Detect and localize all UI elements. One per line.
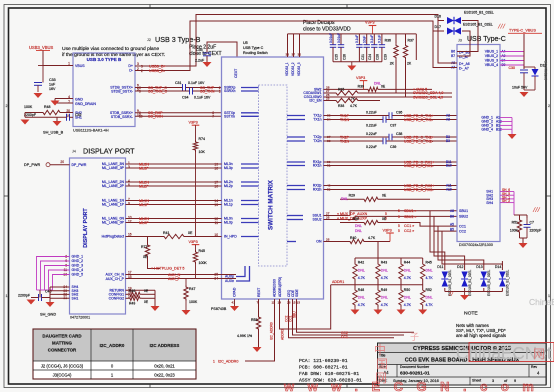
- svg-text:D+_A6: D+_A6: [459, 62, 470, 66]
- svg-text:USB1112G-BAK1-4H: USB1112G-BAK1-4H: [73, 129, 109, 133]
- resistor R37: [405, 34, 407, 44]
- svg-text:SSTXn: SSTXn: [224, 114, 235, 118]
- wire ON to resistor array: [377, 242, 379, 259]
- svg-text:7: 7: [212, 115, 214, 119]
- svg-text:16: 16: [214, 184, 218, 188]
- svg-text:0.22uF: 0.22uF: [366, 110, 377, 114]
- wire SSTX- with series cap C34: [135, 90, 190, 92]
- svg-text:39: 39: [327, 188, 331, 192]
- svg-text:╱╱: ╱╱: [448, 291, 454, 296]
- svg-text:DNL: DNL: [358, 296, 365, 300]
- ground below R51/C7: [522, 238, 524, 243]
- svg-text:13: 13: [214, 203, 218, 207]
- svg-text:CC1: CC1: [459, 224, 466, 228]
- wires ML lanes J4 to U5: [126, 163, 222, 165]
- svg-text:子: 子: [410, 332, 419, 342]
- watermark red CJK glyphs title block: [374, 342, 388, 385]
- svg-text:DNL: DNL: [404, 269, 411, 273]
- wire R45 to AUX_P: [195, 264, 197, 279]
- svg-text:R48: R48: [44, 105, 51, 109]
- wire VDD33 rail: [288, 33, 417, 35]
- svg-text:1: 1: [213, 360, 215, 364]
- svg-text:V3P3: V3P3: [356, 76, 365, 80]
- svg-text:R37: R37: [408, 39, 414, 43]
- wire ON row with resistor R40: [324, 241, 349, 243]
- wire resistor array mid rail (ADDR1): [331, 284, 423, 286]
- svg-text:SS_TXN: SS_TXN: [200, 90, 215, 94]
- svg-text:Document Number: Document Number: [400, 365, 430, 369]
- svg-text:1uF: 1uF: [49, 83, 56, 87]
- svg-text:C7: C7: [530, 221, 535, 225]
- resistor R51: [517, 218, 521, 234]
- svg-text:B0520LW-7-F: B0520LW-7-F: [544, 61, 548, 80]
- svg-text:R38: R38: [338, 104, 344, 108]
- svg-text:R74: R74: [199, 137, 206, 141]
- svg-text:USB 3 Type-B: USB 3 Type-B: [155, 35, 201, 44]
- wire CC2 row: [434, 230, 457, 232]
- resistor R41: [162, 234, 186, 238]
- resistor R49: [377, 281, 379, 288]
- wire HPD with resistor R41: [126, 236, 163, 238]
- capacitor C40: [39, 290, 41, 294]
- svg-text:0E: 0E: [382, 217, 387, 221]
- svg-text:RX2n: RX2n: [313, 188, 322, 192]
- svg-text:I2C_ADDR0: I2C_ADDR0: [100, 343, 125, 348]
- svg-text:USB_PD_C_RX2-: USB_PD_C_RX2-: [404, 188, 434, 192]
- svg-text:SBU: SBU: [293, 311, 297, 318]
- svg-text:ML2P: ML2P: [139, 184, 149, 188]
- svg-text:ADDR1(EPD): ADDR1(EPD): [278, 277, 282, 297]
- svg-text:ML1p: ML1p: [224, 203, 233, 207]
- svg-text:AUX_P: AUX_P: [168, 277, 181, 281]
- svg-text:4.7K: 4.7K: [350, 104, 358, 108]
- ground below R53: [258, 331, 260, 347]
- resistor R42: [354, 258, 356, 262]
- capacitor C39: [382, 138, 384, 144]
- svg-text:DNL: DNL: [374, 82, 381, 86]
- resistor R47: [185, 279, 187, 286]
- svg-text:MATTING: MATTING: [52, 341, 72, 346]
- svg-text:VBUS_2: VBUS_2: [485, 54, 498, 58]
- ground rail below decaps: [333, 61, 382, 63]
- capacitor C25: [332, 34, 334, 45]
- svg-text:4.7K: 4.7K: [404, 303, 412, 307]
- svg-text:╱╱╱: ╱╱╱: [497, 24, 506, 29]
- wires CC/SBU from U5 bottom: [289, 299, 395, 338]
- wire ADDR1 route: [280, 285, 331, 329]
- svg-text:16V: 16V: [49, 87, 56, 91]
- svg-text:TX2N: TX2N: [340, 139, 350, 143]
- ground below R52: [422, 307, 424, 310]
- wire SH to R51/C7: [514, 214, 527, 216]
- wire SSU1 row: [324, 211, 458, 216]
- svg-text:B10: B10: [446, 164, 452, 168]
- svg-text:B8: B8: [450, 215, 454, 219]
- svg-text:B5: B5: [450, 227, 454, 231]
- capacitor C36: [388, 112, 390, 118]
- svg-text:GND_2: GND_2: [72, 259, 84, 263]
- svg-text:5: 5: [398, 229, 400, 233]
- wire VBUS to J2: [43, 51, 73, 66]
- svg-text:V3P3: V3P3: [365, 20, 374, 25]
- svg-text:17: 17: [128, 271, 132, 275]
- wires J3 SH bundle: [500, 191, 514, 193]
- svg-text:ADDR1: ADDR1: [332, 280, 344, 284]
- svg-text:USB 3.0 TYPE B: USB 3.0 TYPE B: [87, 57, 122, 62]
- svg-text:IN_HPD: IN_HPD: [224, 235, 237, 239]
- svg-text:R51: R51: [512, 221, 518, 225]
- svg-text:R40: R40: [350, 236, 356, 240]
- svg-text:0.1uF: 0.1uF: [370, 35, 374, 43]
- capacitor C7: [524, 224, 531, 226]
- svg-text:24: 24: [214, 277, 218, 281]
- frame tick marks: [149, 5, 151, 9]
- svg-text:C34: C34: [182, 95, 189, 99]
- svg-text:10uF 50V: 10uF 50V: [512, 86, 528, 90]
- svg-text:DNL: DNL: [381, 296, 388, 300]
- svg-text:are all high speed signals: are all high speed signals: [456, 333, 507, 338]
- svg-text:D+: D+: [128, 64, 133, 68]
- svg-text:R45: R45: [199, 249, 206, 253]
- resistor R44: [400, 258, 402, 262]
- svg-text:0.01uF: 0.01uF: [337, 33, 341, 43]
- svg-text:TYPE-C_VBUS: TYPE-C_VBUS: [509, 28, 536, 33]
- resistor R52: [422, 281, 424, 288]
- svg-text:0E: 0E: [381, 85, 386, 89]
- svg-text:ML3p: ML3p: [224, 166, 233, 170]
- svg-text:USB_PD_C_TX2-: USB_PD_C_TX2-: [404, 139, 434, 143]
- svg-text:CC1 »: CC1 »: [404, 224, 414, 228]
- svg-text:10: 10: [139, 115, 143, 119]
- svg-text:V3P3: V3P3: [383, 229, 392, 233]
- svg-text:R41: R41: [163, 231, 170, 235]
- svg-text:SBU2 »: SBU2 »: [404, 215, 417, 219]
- svg-text:CC2: CC2: [459, 229, 466, 233]
- capacitor C34: [189, 88, 191, 95]
- svg-text:R45: R45: [426, 261, 432, 265]
- svg-text:C38: C38: [396, 132, 402, 136]
- svg-text:J2: J2: [147, 38, 151, 42]
- svg-text:DNL: DNL: [426, 296, 433, 300]
- ground below C33: [34, 93, 43, 98]
- svg-text:100K: 100K: [189, 300, 198, 304]
- svg-text:2: 2: [548, 104, 550, 108]
- U5 internal blue wires (AUX): [236, 266, 245, 277]
- wire TX2p with cap C38: [324, 136, 390, 138]
- svg-text:I2C_EN: I2C_EN: [309, 99, 322, 103]
- wire CC1 row: [380, 223, 457, 227]
- svg-text:A10: A10: [446, 188, 452, 192]
- svg-text:ML3P: ML3P: [139, 166, 149, 170]
- svg-text:A8: A8: [450, 209, 454, 213]
- svg-text:0472720001: 0472720001: [70, 316, 90, 320]
- svg-text:CC1: CC1: [341, 335, 348, 339]
- svg-text:TX1n: TX1n: [313, 118, 321, 122]
- svg-text:0.22uF: 0.22uF: [366, 145, 377, 149]
- svg-text:STDB_SSRX-: STDB_SSRX-: [111, 115, 134, 119]
- capacitor C24: [366, 34, 368, 45]
- svg-text:NOTE: NOTE: [464, 311, 478, 317]
- svg-text:4.7K: 4.7K: [368, 236, 376, 240]
- wire SSRX pair to U5: [135, 112, 222, 114]
- svg-text:4.99K 1%: 4.99K 1%: [237, 334, 252, 338]
- svg-text:SS_RXN: SS_RXN: [148, 115, 163, 119]
- svg-text:DNL: DNL: [426, 269, 433, 273]
- ESD diode D13: [483, 261, 485, 270]
- svg-text:DISPLAY PORT: DISPLAY PORT: [83, 147, 135, 156]
- svg-text:« HOTPLUG_DET 5: « HOTPLUG_DET 5: [151, 267, 184, 271]
- resistor R43: [377, 258, 379, 262]
- svg-text:SH_2: SH_2: [502, 199, 510, 203]
- wire R51/C7 bottom join: [519, 234, 521, 238]
- svg-text:VBUS_3: VBUS_3: [485, 59, 498, 63]
- title block: [378, 343, 547, 385]
- wire TX1n with cap C37: [324, 119, 384, 121]
- svg-text:TX2n: TX2n: [313, 139, 321, 143]
- svg-text:C40: C40: [45, 290, 52, 294]
- wire RETURN: [126, 289, 156, 291]
- svg-text:5: 5: [385, 212, 387, 216]
- svg-text:J2 (CCG4), J6 (CCG3): J2 (CCG4), J6 (CCG3): [41, 364, 84, 369]
- svg-text:GND_1: GND_1: [72, 255, 84, 259]
- svg-text:R36: R36: [385, 39, 391, 43]
- svg-text:SH_GND: SH_GND: [40, 312, 56, 317]
- ESD diode D11: [444, 261, 446, 270]
- svg-text:18: 18: [214, 166, 218, 170]
- ESD diode D12: [464, 261, 466, 270]
- svg-text:R35: R35: [338, 88, 344, 92]
- wires rail to U5 VDD pins: [287, 34, 289, 57]
- svg-text:PCB: 600-60271-01: PCB: 600-60271-01: [299, 365, 348, 371]
- svg-text:PS8740B: PS8740B: [211, 307, 227, 311]
- svg-text:DP_PWR: DP_PWR: [24, 163, 40, 167]
- svg-text:R50: R50: [404, 288, 410, 292]
- svg-text:C21: C21: [361, 54, 365, 60]
- svg-text:I2C ADDRESS: I2C ADDRESS: [150, 343, 180, 348]
- svg-text:C29: C29: [383, 54, 387, 60]
- svg-text:ChinaECNet: ChinaECNet: [529, 297, 554, 307]
- svg-text:100K: 100K: [510, 229, 519, 233]
- resistor R49 CONFIG2: [126, 297, 129, 299]
- svg-text:ML2p: ML2p: [224, 184, 233, 188]
- svg-text:2.2uF: 2.2uF: [195, 59, 205, 63]
- capacitor C31: [182, 84, 184, 91]
- svg-text:SSU2: SSU2: [312, 218, 321, 222]
- svg-text:R44: R44: [404, 261, 410, 265]
- svg-text:DNL: DNL: [381, 269, 388, 273]
- svg-text:630-60261-01: 630-60261-01: [400, 371, 430, 377]
- svg-text:34: 34: [327, 118, 331, 122]
- svg-text:4.7K: 4.7K: [426, 303, 434, 307]
- svg-text:VDD33_2: VDD33_2: [291, 62, 295, 76]
- svg-text:100K: 100K: [24, 105, 33, 109]
- svg-text:D14: D14: [495, 265, 501, 269]
- resistor R50: [400, 281, 402, 288]
- svg-text:2K: 2K: [407, 62, 412, 66]
- connector J2 body: [73, 53, 135, 127]
- svg-text:GND_DRAIN: GND_DRAIN: [75, 102, 96, 106]
- svg-text:R46: R46: [129, 289, 135, 293]
- svg-text:5: 5: [398, 209, 400, 213]
- svg-text:VBUS: VBUS: [75, 64, 85, 68]
- svg-text:2: 2: [6, 104, 8, 108]
- svg-text:GND: GND: [75, 97, 83, 101]
- svg-text:0x20, 0x21: 0x20, 0x21: [154, 364, 175, 369]
- svg-text:Rev: Rev: [531, 365, 537, 369]
- wire HOTPLUG_DET stub: [148, 258, 161, 269]
- svg-text:C25: C25: [334, 54, 338, 60]
- resistor R74: [193, 140, 197, 152]
- svg-text:GND_5: GND_5: [72, 273, 84, 277]
- ground below R49: [377, 307, 379, 310]
- svg-text:D13: D13: [476, 265, 482, 269]
- svg-text:2200pF: 2200pF: [24, 113, 37, 117]
- svg-text:GND_4: GND_4: [481, 128, 493, 132]
- svg-text:VBUS_4: VBUS_4: [485, 63, 498, 67]
- wires J3 GND to ground: [500, 117, 512, 119]
- svg-text:2200pF: 2200pF: [18, 294, 31, 298]
- svg-text:C24: C24: [368, 54, 372, 60]
- svg-text:38: 38: [327, 139, 331, 143]
- svg-text:USB3_D+: USB3_D+: [149, 64, 167, 68]
- resistor R29 (SBU aux link): [340, 198, 362, 200]
- resistor R45: [193, 250, 197, 264]
- svg-text:26: 26: [326, 238, 330, 242]
- U5 internal blue wires (left): [241, 87, 259, 89]
- svg-text:100K: 100K: [199, 261, 208, 265]
- svg-text:V3P3: V3P3: [189, 121, 198, 125]
- svg-text:VDD33_3: VDD33_3: [297, 62, 301, 76]
- svg-text:中: 中: [374, 342, 386, 357]
- svg-text:10uF: 10uF: [363, 36, 367, 43]
- svg-text:SBU1: SBU1: [459, 209, 468, 213]
- svg-text:C26: C26: [342, 54, 346, 60]
- resistor R45: [422, 258, 424, 262]
- ground below R48: [354, 307, 356, 310]
- svg-text:ML0p: ML0p: [224, 221, 233, 225]
- svg-text:R29: R29: [349, 194, 355, 198]
- ground SH_GND: [46, 302, 55, 307]
- svg-text:0.1uF 16V: 0.1uF 16V: [194, 95, 211, 99]
- svg-text:0.01uF: 0.01uF: [329, 33, 333, 43]
- svg-text:DP_PWR: DP_PWR: [72, 163, 87, 167]
- svg-text:DNL: DNL: [355, 229, 362, 233]
- svg-text:USB Type C: USB Type C: [243, 46, 264, 50]
- svg-text:D17: D17: [434, 25, 441, 29]
- ESD diode D14: [501, 261, 503, 270]
- svg-text:D16: D16: [434, 15, 441, 19]
- svg-text:C33: C33: [49, 78, 56, 82]
- svg-text:J4: J4: [72, 150, 76, 154]
- wires SBU/CC nets to ESD diodes: [430, 211, 445, 261]
- wire SSTX+ with series cap C31: [135, 87, 183, 89]
- wire R74 to IN_HPD net: [195, 152, 197, 237]
- ground at J2 GND: [51, 101, 60, 106]
- svg-text:SW0/I2C_SCL 4,9: SW0/I2C_SCL 4,9: [413, 96, 443, 100]
- svg-text:USB_PD_C_RX1-: USB_PD_C_RX1-: [404, 164, 434, 168]
- svg-text:ON: ON: [316, 240, 322, 244]
- svg-text:B6: B6: [451, 50, 455, 54]
- svg-text:10: 10: [214, 233, 218, 237]
- wire RX2 pair: [324, 185, 458, 187]
- svg-text:ML0P: ML0P: [139, 221, 149, 225]
- svg-text:4.7K: 4.7K: [381, 303, 389, 307]
- svg-text:SH1: SH1: [72, 296, 79, 300]
- svg-text:5: 5: [398, 224, 400, 228]
- wires J4 SH bundle: [50, 286, 70, 288]
- svg-text:3: 3: [141, 64, 143, 68]
- svg-text:DNL: DNL: [404, 296, 411, 300]
- U5 internal blue wires (right): [287, 115, 305, 117]
- svg-text:R77: R77: [141, 245, 148, 249]
- wire CSDA row with resistor R35: [324, 92, 335, 94]
- svg-text:4.7K: 4.7K: [358, 276, 366, 280]
- svg-text:SH_USB_B: SH_USB_B: [43, 130, 64, 135]
- wire USB3_D+ to ESD diode D16: [135, 15, 444, 67]
- capacitor C38: [388, 134, 390, 140]
- ground below RETURN/CONFIG: [151, 306, 160, 311]
- capacitor C28: [373, 34, 375, 45]
- svg-text:TX1N: TX1N: [340, 118, 350, 122]
- svg-text:USB3_D-: USB3_D-: [149, 69, 166, 73]
- svg-text:AUXn: AUXn: [225, 279, 234, 283]
- svg-text:1: 1: [68, 62, 70, 66]
- svg-text:PCA: 121-60239-01: PCA: 121-60239-01: [299, 358, 348, 364]
- svg-text:ADDRESS0: ADDRESS0: [273, 279, 277, 297]
- resistor R53 (REXT): [258, 299, 260, 315]
- svg-text:B7: B7: [451, 54, 455, 58]
- zener diode D15: [524, 66, 535, 68]
- svg-text:DNL: DNL: [358, 269, 365, 273]
- svg-text:R49: R49: [381, 288, 387, 292]
- svg-text:R42: R42: [358, 261, 364, 265]
- svg-text:D11: D11: [437, 265, 443, 269]
- resistor R77: [147, 237, 149, 244]
- svg-text:FAB DRW: 610-60275-01: FAB DRW: 610-60275-01: [299, 371, 359, 377]
- ground below ESD diodes: [460, 295, 469, 300]
- svg-text:USB_PD_C_TX1-: USB_PD_C_TX1-: [404, 118, 434, 122]
- svg-text:2200pF: 2200pF: [530, 229, 542, 233]
- svg-text:SS_TXN_C: SS_TXN_C: [148, 90, 167, 94]
- wire RX1 pair: [324, 161, 458, 163]
- svg-text:DNL: DNL: [355, 224, 362, 228]
- watermark red box: [469, 343, 554, 362]
- svg-text:ESD105_B1_02EL: ESD105_B1_02EL: [468, 270, 472, 296]
- svg-text:3: 3: [137, 62, 139, 66]
- svg-text:╱╱╱: ╱╱╱: [532, 207, 541, 212]
- svg-text:VBUS_1: VBUS_1: [485, 50, 498, 54]
- svg-text:R52: R52: [426, 288, 432, 292]
- wire R48/C32 left junction: [24, 113, 26, 118]
- svg-text:0E: 0E: [188, 231, 193, 235]
- svg-text:ML_LANE_3P: ML_LANE_3P: [102, 166, 125, 170]
- svg-text:SW1/I2C_SDA 4,9: SW1/I2C_SDA 4,9: [413, 91, 443, 95]
- wires VBUS to TYPE-C_VBUS: [500, 51, 524, 53]
- svg-text:B3: B3: [446, 139, 450, 143]
- svg-text:ESD105_B1_02EL: ESD105_B1_02EL: [487, 270, 491, 296]
- svg-text:C31: C31: [175, 81, 182, 85]
- resistor R30 (CC link): [340, 222, 362, 224]
- svg-text:ESD105_B1_02EL: ESD105_B1_02EL: [463, 23, 493, 27]
- svg-text:R49: R49: [129, 302, 135, 306]
- svg-text:网: 网: [533, 347, 545, 361]
- capacitor C33: [42, 66, 44, 83]
- svg-text:D12: D12: [457, 265, 463, 269]
- ESD diode D17: [447, 28, 454, 35]
- svg-text:A3: A3: [446, 118, 450, 122]
- svg-text:4.7K: 4.7K: [404, 276, 412, 280]
- svg-text:11: 11: [215, 221, 219, 225]
